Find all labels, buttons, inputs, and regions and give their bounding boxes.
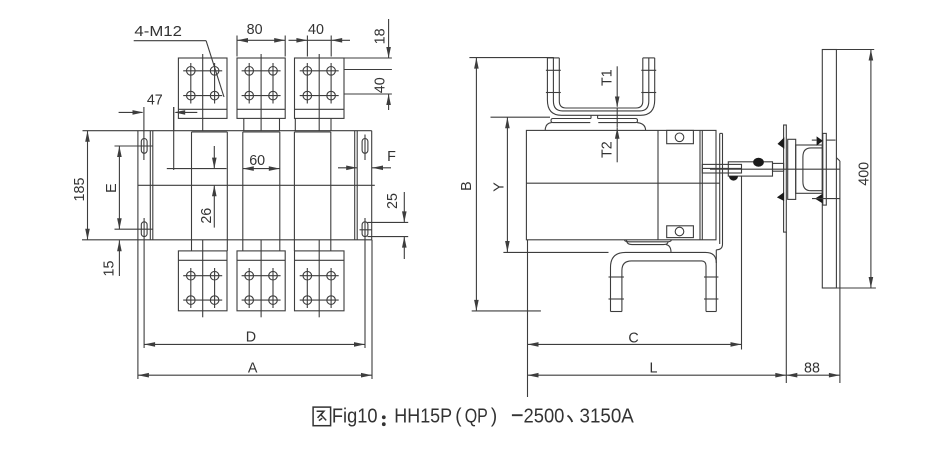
svg-text:A: A	[248, 360, 258, 376]
mechanism mounting plate	[784, 125, 787, 232]
upper bracket arm top caps	[547, 57, 559, 59]
svg-text:D: D	[246, 329, 256, 345]
bottom pad 3 neck	[293, 240, 295, 251]
terminal pad strips under bracket	[553, 118, 591, 120]
bottom latch block with circle	[667, 226, 694, 238]
svg-text:25: 25	[385, 193, 401, 209]
svg-text:Fig10: Fig10	[332, 405, 378, 427]
bottom pad 2 hole cross lines	[242, 275, 281, 277]
handle housing box	[796, 145, 823, 193]
bottom terminal pad 3	[295, 251, 345, 311]
top pad 1 center line	[202, 54, 204, 131]
caption ideographic comma	[568, 416, 573, 423]
pad3 row extension lines to right	[344, 57, 392, 59]
top pad 2 hole cross lines	[242, 70, 281, 72]
inner vertical wall	[657, 130, 659, 239]
upper bracket busbar inner contour	[559, 58, 643, 108]
slot center line ticks right	[364, 135, 366, 161]
svg-text:26: 26	[199, 208, 215, 224]
top terminal pad 1	[178, 58, 227, 118]
top terminal pad 2	[237, 58, 285, 118]
caption minus dash	[512, 414, 523, 416]
mechanism plate extension line down L ref	[785, 232, 787, 383]
svg-text:18: 18	[373, 28, 389, 44]
svg-text:T1: T1	[600, 69, 616, 86]
right flange double lines	[354, 131, 356, 240]
panel bracket plate	[823, 133, 827, 205]
weld mark triangle upper left	[778, 137, 785, 148]
pole column 3 inside body	[293, 132, 295, 240]
weld mark triangle lower right	[815, 194, 823, 204]
front wall double lines	[699, 130, 701, 239]
shaft pivot dot	[753, 158, 764, 167]
svg-text:2500: 2500	[524, 405, 565, 427]
bottom pad 1 hole cross lines	[183, 275, 222, 277]
shaft knob behind panel and 88 extension line	[836, 158, 840, 161]
svg-text:40: 40	[373, 77, 389, 93]
top pad 1 bolt holes 4-M12	[187, 67, 196, 76]
operating shaft	[702, 164, 741, 173]
lower bracket leg bottoms	[611, 311, 622, 313]
T1-T2 center line through pads	[616, 108, 618, 128]
top latch block with circle	[667, 130, 694, 143]
left flange double lines	[149, 131, 151, 240]
upper bracket arm hole ticks	[546, 69, 561, 71]
caption hanzi TU glyph	[313, 407, 331, 426]
weld mark triangle upper right	[817, 136, 823, 145]
lower bracket left leg outer edge with top bend	[611, 252, 626, 311]
rod center line through handle to panel	[710, 168, 840, 170]
lower bracket left leg inner edge with bend	[622, 261, 632, 312]
svg-text:): )	[491, 405, 497, 427]
right view main body outline	[526, 130, 716, 239]
svg-text:60: 60	[249, 153, 265, 169]
svg-text:F: F	[387, 149, 396, 165]
handle rounded body	[803, 148, 822, 191]
top pad 2 bolt holes 4-M12	[245, 67, 254, 76]
bottom terminal pad 1	[178, 251, 227, 311]
svg-text:15: 15	[102, 261, 118, 277]
svg-text:Y: Y	[491, 182, 507, 192]
lower bracket bar top between legs into right leg outer	[626, 252, 717, 311]
svg-text:3150A: 3150A	[580, 405, 635, 427]
bottom pad 2 center line	[260, 240, 262, 317]
caption colon dots	[382, 415, 386, 419]
top pad 3 hole cross lines	[300, 70, 339, 72]
svg-text:4-M12: 4-M12	[134, 23, 182, 40]
body middle horizontal line	[138, 184, 375, 186]
bottom terminal pad 2	[237, 251, 285, 311]
top pad 1 hole cross lines	[183, 70, 222, 72]
pole column 2 inside body	[242, 132, 244, 240]
svg-text:E: E	[104, 183, 120, 193]
top pad 2 center line	[260, 54, 262, 131]
svg-text:B: B	[459, 181, 475, 191]
upper bracket busbar outer contour	[547, 58, 654, 115]
operating rod to handle	[773, 163, 784, 171]
bottom pad 3 center line	[318, 240, 320, 317]
svg-text:400: 400	[857, 162, 873, 186]
weld mark triangle lower left	[777, 192, 784, 201]
mechanism box	[788, 139, 796, 199]
svg-text:HH15P: HH15P	[394, 405, 452, 427]
connector pad strip under body bottom	[625, 240, 672, 242]
shaft lower pivot half-disc	[729, 176, 738, 181]
top pad 3 bolt holes 4-M12	[303, 67, 312, 76]
horizontal marks at handle	[812, 139, 817, 141]
svg-text:40: 40	[308, 22, 324, 38]
svg-text:88: 88	[804, 361, 820, 377]
bottom pad 2 bolt holes	[245, 271, 254, 280]
left view main body outline	[83, 130, 372, 132]
bottom pad 1 center line	[202, 240, 204, 317]
right view middle horizontal line	[526, 182, 720, 184]
top pad 3 center line	[318, 54, 320, 131]
bottom pad 3 hole cross lines	[300, 275, 339, 277]
bottom pad 1 bolt holes	[187, 271, 196, 280]
lower bracket leg hole ticks	[609, 276, 624, 278]
shaft coupler block	[728, 162, 772, 176]
front cover plate	[719, 133, 721, 244]
upper bracket busbar middle contour	[553, 58, 648, 111]
pad strip end curves to body top	[545, 123, 551, 131]
lower bracket bar bottom into right leg inner	[632, 261, 707, 312]
svg-text:185: 185	[72, 178, 88, 202]
svg-text:(: (	[455, 405, 462, 427]
svg-text:T2: T2	[600, 141, 616, 158]
svg-text:80: 80	[247, 22, 263, 38]
bottom pad 1 neck	[191, 240, 193, 251]
bottom pad 2 neck	[242, 240, 244, 251]
panel plate	[822, 50, 836, 289]
svg-text:L: L	[650, 361, 658, 377]
mounting slot top-left	[141, 139, 147, 154]
top terminal pad 3	[295, 58, 345, 118]
top pad 3 neck	[294, 118, 296, 130]
svg-text:QP: QP	[465, 405, 488, 427]
mounting slot top-right	[362, 139, 368, 154]
mounting slot bottom-right	[362, 222, 368, 237]
top pad 2 neck	[243, 118, 245, 130]
bottom pad 3 bolt holes	[303, 271, 312, 280]
lower bracket Y reference line at bar top level	[503, 251, 608, 253]
mechanism mark lines inside body	[167, 168, 227, 170]
svg-text:47: 47	[147, 92, 163, 108]
mounting slot bottom-left	[141, 222, 147, 237]
pole column 1 inside body	[191, 132, 193, 240]
